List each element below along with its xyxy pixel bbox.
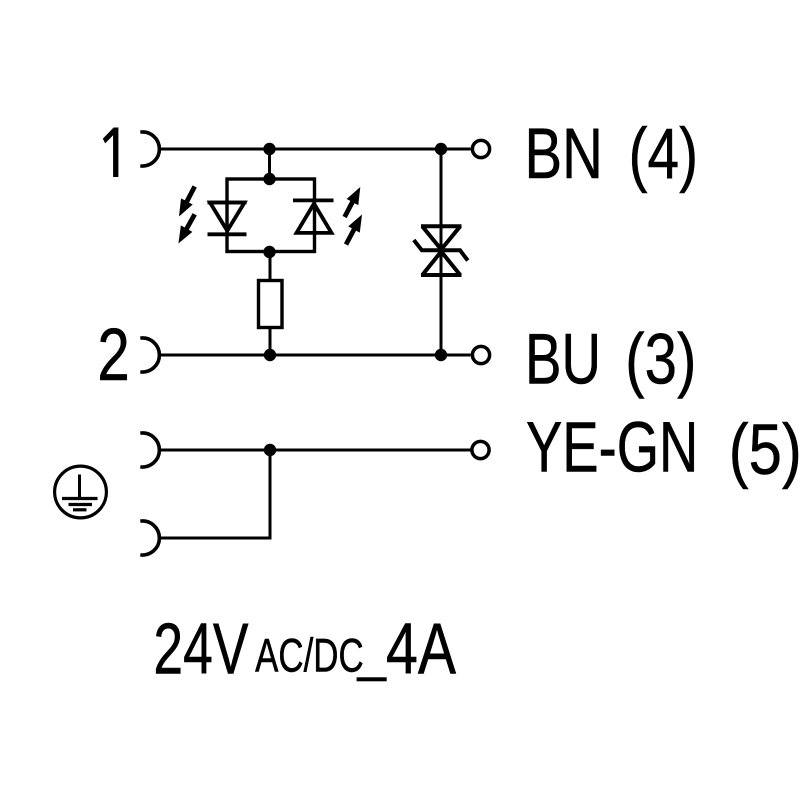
svg-text:(5): (5) bbox=[729, 411, 800, 490]
svg-text:24V: 24V bbox=[153, 610, 248, 690]
svg-text:YE-GN: YE-GN bbox=[526, 409, 698, 488]
svg-text:4A: 4A bbox=[386, 610, 456, 690]
svg-text:(3): (3) bbox=[625, 321, 696, 400]
svg-text:AC/DC: AC/DC bbox=[255, 630, 364, 683]
svg-text:BU: BU bbox=[525, 321, 601, 400]
svg-text:BN: BN bbox=[525, 115, 603, 194]
svg-text:(4): (4) bbox=[629, 115, 698, 194]
svg-text:2: 2 bbox=[97, 313, 129, 396]
